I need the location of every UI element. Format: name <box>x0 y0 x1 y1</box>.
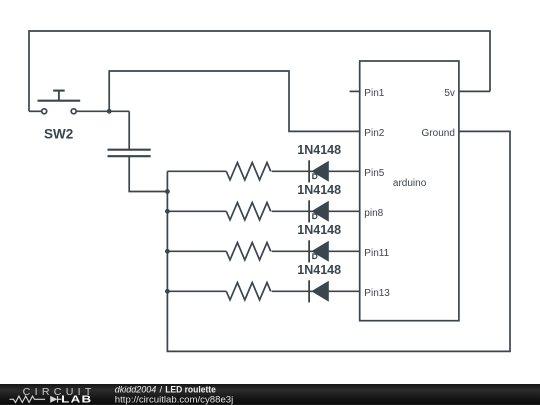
pin stub Pin1 <box>350 90 360 92</box>
resistor R4 <box>226 283 270 300</box>
svg-text:pin8: pin8 <box>364 208 383 219</box>
wire row1 left <box>167 170 226 172</box>
svg-text:1N4148: 1N4148 <box>297 143 341 157</box>
resistor R1 <box>226 163 270 180</box>
svg-text:5v: 5v <box>444 88 455 99</box>
wire row3 left <box>167 250 226 252</box>
svg-text:1N4148: 1N4148 <box>297 223 341 237</box>
wire row4 left <box>167 290 226 292</box>
node junction switch/Pin2 <box>107 109 112 114</box>
svg-text:Pin1: Pin1 <box>364 88 384 99</box>
wire row1 right <box>272 170 360 172</box>
wire cap top lead <box>128 111 130 149</box>
svg-text:Pin11: Pin11 <box>364 248 389 259</box>
diode D3 1N4148 <box>309 240 329 262</box>
node junction bus row3 <box>165 249 170 254</box>
svg-text:Pin5: Pin5 <box>364 168 384 179</box>
node junction bus row4 <box>165 289 170 294</box>
wire switch left lead <box>29 110 41 112</box>
resistor R3 <box>226 243 270 260</box>
node junction cap/bus <box>165 189 170 194</box>
wire riser to Pin2 line <box>109 71 360 131</box>
wire ground bus vertical <box>167 131 510 351</box>
diode D1 1N4148 <box>309 160 329 182</box>
pushbutton switch SW2 <box>38 91 81 114</box>
wire row2 right <box>272 210 360 212</box>
svg-text:1N4148: 1N4148 <box>297 263 341 277</box>
CircuitLab logo resistor-diode glyph <box>10 396 62 403</box>
arduino U1 box <box>360 61 459 321</box>
svg-text:http://circuitlab.com/cy88e3j: http://circuitlab.com/cy88e3j <box>115 394 234 405</box>
svg-text:arduino: arduino <box>393 178 427 189</box>
wire switch right to cap branch <box>77 110 130 112</box>
wire row4 right <box>272 290 360 292</box>
svg-text:Pin2: Pin2 <box>364 128 384 139</box>
node junction bus row2 <box>165 209 170 214</box>
svg-text:Ground: Ground <box>422 128 455 139</box>
resistor R2 <box>226 203 270 220</box>
diode D4 1N4148 <box>309 280 329 302</box>
wire top 5v rail <box>29 31 490 111</box>
svg-text:Pin13: Pin13 <box>364 288 390 299</box>
wire cap bottom lead <box>129 157 167 192</box>
wire row3 right <box>272 250 360 252</box>
svg-text:LAB: LAB <box>61 394 92 405</box>
wire 5v to rail <box>459 90 490 92</box>
svg-text:SW2: SW2 <box>44 127 73 142</box>
diode D2 1N4148 <box>309 200 329 222</box>
svg-text:1N4148: 1N4148 <box>297 183 341 197</box>
capacitor C1 <box>108 150 151 157</box>
wire row2 left <box>167 210 226 212</box>
